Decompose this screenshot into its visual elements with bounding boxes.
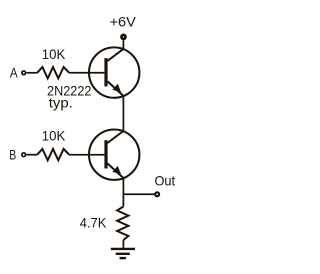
svg-text:10K: 10K bbox=[42, 128, 66, 144]
resistor R2 10K bbox=[37, 149, 69, 160]
wire A terminal to R1 bbox=[26, 72, 37, 74]
resistor R1 10K bbox=[37, 67, 69, 78]
terminal +6V bbox=[122, 35, 126, 39]
svg-text:4.7K: 4.7K bbox=[80, 214, 107, 230]
wire B terminal to R2 bbox=[26, 154, 37, 156]
svg-text:10K: 10K bbox=[42, 46, 66, 62]
terminal A bbox=[22, 71, 26, 75]
svg-text:Out: Out bbox=[155, 173, 176, 189]
transistor Q1 bbox=[89, 47, 139, 97]
resistor R3 4.7K bbox=[117, 207, 128, 240]
svg-text:typ.: typ. bbox=[49, 96, 73, 111]
svg-text:+6V: +6V bbox=[110, 14, 137, 30]
wire Q1 emitter to Q2 collector bbox=[122, 96, 124, 131]
svg-text:B: B bbox=[9, 146, 16, 162]
terminal B bbox=[22, 153, 26, 157]
wire output node to Out terminal bbox=[123, 193, 154, 195]
wire R2 to Q2 base bbox=[69, 154, 104, 156]
wire R3 to ground bbox=[122, 240, 124, 249]
svg-text:A: A bbox=[10, 64, 18, 80]
wire Q2 emitter down to output node bbox=[122, 178, 124, 207]
transistor Q2 bbox=[89, 130, 139, 180]
ground bbox=[111, 249, 135, 258]
wire +6V to Q1 collector bbox=[122, 40, 124, 49]
wire R1 to Q1 base bbox=[69, 72, 104, 74]
terminal Out bbox=[155, 192, 159, 196]
